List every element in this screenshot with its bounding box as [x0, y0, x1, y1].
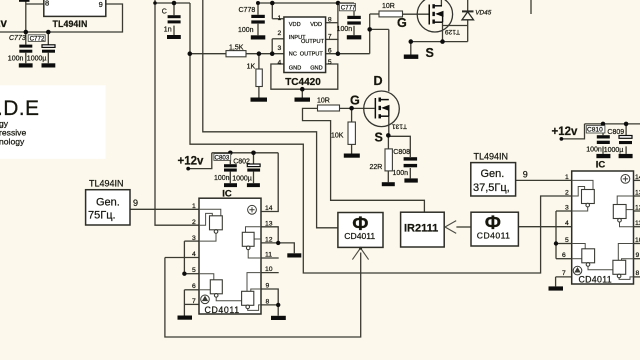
svg-text:S: S [375, 131, 383, 145]
svg-text:2: 2 [565, 190, 569, 197]
svg-text:C778: C778 [239, 7, 256, 14]
svg-text:9: 9 [133, 198, 138, 208]
svg-text:10: 10 [265, 266, 273, 273]
svg-text:8: 8 [266, 299, 270, 306]
svg-text:75Гц.: 75Гц. [88, 210, 116, 222]
svg-text:T129: T129 [445, 28, 460, 35]
svg-text:2: 2 [192, 219, 196, 226]
svg-text:7: 7 [328, 33, 332, 40]
svg-text:6: 6 [328, 47, 332, 54]
svg-text:12: 12 [265, 237, 273, 244]
svg-text:9: 9 [266, 283, 270, 290]
svg-text:13: 13 [635, 190, 640, 197]
svg-text:+12v: +12v [178, 156, 205, 168]
svg-text:TL494IN: TL494IN [53, 19, 88, 29]
svg-text:22R: 22R [370, 164, 383, 171]
svg-text:C773: C773 [9, 35, 26, 42]
svg-text:100n: 100n [8, 56, 24, 63]
svg-text:T131: T131 [392, 122, 407, 129]
svg-text:3: 3 [278, 45, 282, 52]
svg-text:NC: NC [289, 51, 297, 57]
svg-text:6: 6 [192, 283, 196, 290]
svg-text:GND: GND [310, 65, 322, 71]
svg-text:CD4011: CD4011 [344, 231, 375, 241]
svg-text:C810: C810 [587, 127, 603, 134]
svg-text:CD4011: CD4011 [579, 275, 612, 285]
svg-text:4: 4 [192, 251, 196, 258]
svg-text:11: 11 [265, 252, 272, 259]
svg-text:11: 11 [635, 220, 640, 227]
svg-text:1000µ: 1000µ [232, 176, 252, 183]
svg-text:TL494IN: TL494IN [474, 151, 509, 161]
svg-text:1000µ: 1000µ [27, 56, 47, 63]
svg-text:C809: C809 [607, 129, 624, 136]
svg-text:8: 8 [45, 0, 49, 8]
svg-text:14: 14 [265, 205, 273, 212]
svg-text:5: 5 [328, 59, 332, 66]
svg-text:10R: 10R [317, 98, 330, 105]
svg-text:7: 7 [192, 298, 196, 305]
svg-text:100n: 100n [337, 26, 353, 33]
svg-text:C772: C772 [30, 35, 45, 42]
svg-text:G: G [350, 94, 360, 108]
svg-text:1: 1 [192, 203, 196, 210]
svg-text:S: S [426, 46, 434, 60]
svg-text:6: 6 [562, 252, 566, 259]
svg-text:37,5Гц,: 37,5Гц, [473, 182, 510, 194]
svg-text:9: 9 [99, 0, 103, 9]
svg-text:CD4011: CD4011 [477, 230, 511, 240]
svg-text:3: 3 [192, 235, 196, 242]
svg-text:10K: 10K [331, 133, 344, 140]
svg-text:C808: C808 [393, 149, 410, 156]
svg-text:C802: C802 [233, 159, 250, 166]
svg-text:1: 1 [278, 15, 282, 22]
svg-text:Gen.: Gen. [481, 168, 505, 180]
svg-text:1K: 1K [247, 63, 256, 70]
svg-text:1: 1 [565, 174, 569, 181]
svg-text:2: 2 [278, 30, 282, 37]
svg-text:10: 10 [635, 237, 640, 244]
svg-text:12: 12 [635, 205, 640, 212]
svg-text:C: C [162, 9, 167, 16]
svg-text:100n: 100n [238, 27, 254, 34]
svg-text:3: 3 [565, 205, 569, 212]
svg-text:C803: C803 [215, 155, 230, 162]
svg-text:13: 13 [265, 221, 273, 228]
svg-text:C777: C777 [341, 4, 356, 11]
svg-text:IC: IC [222, 188, 232, 199]
svg-text:9: 9 [523, 170, 528, 180]
svg-text:IC: IC [596, 159, 606, 170]
svg-text:TC4420: TC4420 [285, 77, 321, 88]
svg-text:CD4011: CD4011 [205, 305, 240, 315]
svg-text:+12v: +12v [552, 126, 579, 138]
svg-text:OUTPUT: OUTPUT [301, 39, 325, 45]
svg-text:GND: GND [289, 65, 301, 71]
svg-text:D: D [374, 74, 383, 88]
svg-text:IR2111: IR2111 [404, 223, 438, 235]
svg-text:8: 8 [636, 270, 640, 277]
svg-text:G: G [397, 16, 407, 30]
svg-text:.D.E: .D.E [0, 97, 39, 120]
svg-text:nology: nology [0, 137, 25, 147]
svg-text:100n: 100n [586, 147, 602, 154]
svg-text:1000µ: 1000µ [604, 147, 624, 154]
svg-text:TL494IN: TL494IN [89, 178, 124, 188]
svg-text:OUTPUT: OUTPUT [300, 51, 324, 57]
svg-text:5: 5 [565, 237, 569, 244]
svg-text:7: 7 [562, 270, 566, 277]
svg-text:9: 9 [636, 252, 640, 259]
svg-text:10R: 10R [382, 3, 395, 10]
svg-text:VD45: VD45 [475, 10, 491, 17]
svg-text:100n: 100n [393, 170, 409, 177]
svg-text:1,5K: 1,5K [229, 44, 244, 51]
svg-text:5: 5 [192, 267, 196, 274]
svg-text:Gen.: Gen. [96, 197, 120, 209]
svg-text:VDD: VDD [310, 22, 322, 28]
svg-text:VDD: VDD [289, 22, 301, 28]
svg-text:14: 14 [635, 174, 640, 181]
svg-text:100n: 100n [214, 175, 230, 182]
svg-text:1n: 1n [164, 27, 172, 34]
svg-text:8: 8 [328, 17, 332, 24]
svg-text:+12v: +12v [0, 18, 8, 30]
svg-text:4: 4 [278, 59, 282, 66]
svg-text:4: 4 [565, 220, 569, 227]
